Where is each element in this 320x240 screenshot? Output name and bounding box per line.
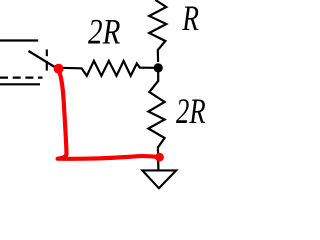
svg-text:2R: 2R: [176, 91, 206, 131]
svg-text:2R: 2R: [88, 13, 120, 53]
svg-text:R: R: [181, 0, 199, 38]
